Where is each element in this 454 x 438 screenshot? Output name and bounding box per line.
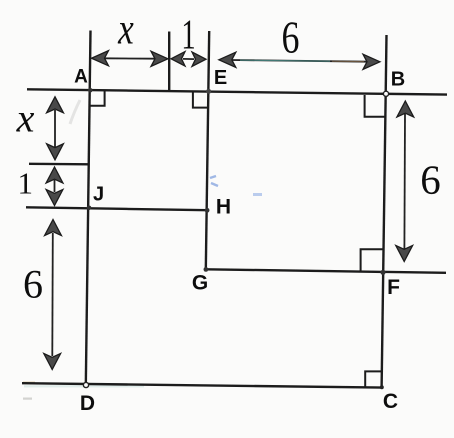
dimension arrow x (top, A to tick) [92,51,169,67]
svg-text:B: B [391,69,405,91]
svg-text:A: A [74,67,88,88]
faint pencil mark near A [70,100,80,124]
dimension arrow 6 (top, E to B) [219,52,380,69]
node F dot [380,270,385,275]
right angle mark at F [361,249,383,271]
node B dot [383,91,388,96]
tick line between x and 1 at left [29,163,89,166]
dimension arrow x (left, top line to tick) [47,97,64,160]
svg-text:x: x [16,96,35,141]
dimension arrow 6 (left, J line to bottom) [44,220,62,370]
line through A E B (top side, extended both ends) [27,89,447,94]
dimension arrow 1 (left, tick to J line) [46,167,63,206]
svg-text:6: 6 [420,157,441,203]
tick line between x and 1 at top [168,32,170,91]
right angle mark at C [365,371,381,387]
cyan scan fringe under bottom line [24,385,144,387]
tan scan fringe at bottom line start [23,382,35,384]
node C dot [380,385,384,389]
node J dot [87,206,92,211]
dimension arrow 6 (right, top line to F line) [396,101,414,262]
dimension arrow 1 (top, tick to E) [171,52,206,67]
line B F C (right side vertical) [382,35,387,388]
node G dot [204,267,209,272]
right angle mark at B [365,95,386,117]
line A J D (left side vertical) [86,31,91,386]
svg-text:6: 6 [281,13,299,63]
svg-text:J: J [93,184,104,206]
blue pen dash right of H [253,193,262,196]
node A dot [88,88,93,93]
node D dot [83,382,88,387]
svg-text:1: 1 [18,166,34,201]
line J H [26,207,207,210]
blue pen speck above H [210,176,218,186]
node E dot [206,89,211,94]
right angle mark at A [90,91,104,106]
svg-text:6: 6 [23,262,43,307]
line G F (extended right) [206,269,446,273]
svg-text:x: x [117,4,134,54]
svg-text:E: E [214,67,227,89]
right angle mark at E [193,92,208,107]
svg-text:G: G [192,272,208,295]
node H dot [205,208,210,213]
line E H G (middle vertical) [206,31,209,270]
svg-text:H: H [216,196,231,219]
svg-text:C: C [383,390,398,413]
faint gray dash below bottom line start [23,398,32,400]
svg-text:F: F [387,276,400,299]
svg-text:1: 1 [181,11,195,58]
svg-text:D: D [80,392,95,415]
line through D C (bottom side) [22,383,383,387]
